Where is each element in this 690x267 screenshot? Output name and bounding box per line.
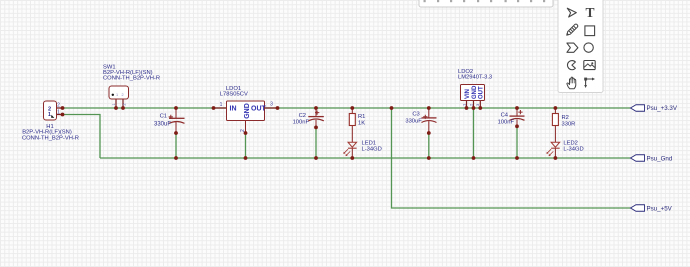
regulator LDO1 (214, 101, 278, 158)
icon: polygon flag tool (567, 43, 578, 52)
LED2 (546, 142, 559, 156)
icon: rectangle tool (585, 26, 595, 36)
wire: ground rail (100, 157, 631, 159)
icon: arc tool (567, 61, 575, 70)
wire: +5V branch down and right to port (392, 108, 631, 208)
svg-text:1: 1 (112, 103, 116, 105)
capacitor C3 (422, 108, 437, 133)
svg-text:C1: C1 (160, 113, 167, 119)
icon: hand tool (567, 77, 576, 89)
node Psu_+5V port (631, 205, 673, 213)
svg-text:100nF: 100nF (293, 120, 310, 126)
resistor R2 (552, 114, 558, 126)
svg-text:R2: R2 (562, 115, 569, 121)
LED1 (343, 142, 356, 156)
svg-text:1: 1 (48, 112, 51, 118)
junction dots at capacitor pin ends (174, 124, 519, 135)
label LED2 (563, 140, 583, 152)
capacitor C1 (169, 108, 185, 133)
wire: LDO2 GND pin down to ground rail (473, 108, 475, 158)
svg-text:R1: R1 (358, 114, 365, 120)
svg-text:CONN-TH_B2P-VH-R: CONN-TH_B2P-VH-R (103, 76, 160, 82)
label LED1 (362, 140, 382, 152)
svg-text:Psu_Gnd: Psu_Gnd (647, 156, 673, 163)
node Psu_Gnd port (631, 155, 673, 163)
wire: main +5V/top rail (63, 107, 631, 109)
svg-text:GND: GND (472, 85, 478, 99)
svg-text:L78S05CV: L78S05CV (220, 92, 248, 98)
svg-text:L-34GD: L-34GD (362, 146, 382, 152)
junction dots on ground rail (174, 156, 557, 160)
wire: H1 pin1 to ground rail (down at x=100) (63, 115, 101, 159)
capacitor C2 (308, 108, 324, 127)
resistor R1 (349, 114, 355, 126)
icon: circle tool (584, 43, 593, 52)
svg-text:OUT: OUT (251, 105, 267, 112)
switch SW1 (109, 86, 129, 108)
svg-text:2: 2 (57, 103, 60, 109)
svg-text:330R: 330R (562, 122, 576, 128)
wire: C3 lower branch (428, 133, 430, 158)
svg-text:1K: 1K (358, 120, 365, 126)
svg-text:LM2940T-3.3: LM2940T-3.3 (458, 75, 492, 81)
label H1 (22, 124, 79, 141)
svg-text:OUT: OUT (479, 86, 485, 99)
svg-text:330uF: 330uF (154, 122, 171, 128)
label SW1 (103, 64, 160, 81)
svg-text:330uF: 330uF (405, 119, 422, 125)
wire: R1/LED1 branch pins (351, 108, 353, 158)
wire: R2/LED2 branch pins (554, 108, 556, 158)
regulator LDO2 (461, 85, 485, 109)
svg-text:IN: IN (230, 105, 237, 112)
label LDO1 (220, 86, 248, 98)
svg-text:1: 1 (116, 93, 118, 97)
label C1 (154, 113, 171, 127)
svg-text:Psu_+5V: Psu_+5V (647, 206, 673, 213)
svg-text:C4: C4 (501, 112, 509, 118)
capacitor C4 (510, 108, 525, 126)
icon: image tool (584, 61, 595, 70)
svg-text:3: 3 (270, 102, 273, 108)
svg-text:T: T (585, 5, 594, 20)
wire: C1 lower branch (175, 133, 177, 158)
svg-text:Psu_+3.3V: Psu_+3.3V (647, 105, 678, 112)
svg-text:1: 1 (57, 110, 60, 116)
svg-text:CONN-TH_B2P-VH-R: CONN-TH_B2P-VH-R (22, 135, 79, 141)
svg-text:GND: GND (244, 103, 251, 119)
svg-text:C3: C3 (412, 111, 419, 117)
svg-text:2: 2 (122, 93, 124, 97)
svg-text:L-34GD: L-34GD (563, 146, 583, 152)
junction dots on top rail (61, 106, 558, 116)
icon: pencil (567, 24, 578, 35)
connector H1 (44, 101, 63, 120)
label LDO2 (458, 69, 492, 81)
label R1 (358, 114, 365, 127)
label C2 (293, 113, 310, 126)
node Psu_+3.3V port (631, 105, 678, 112)
wire: C2 lower branch (315, 127, 317, 158)
label C4 (498, 112, 515, 125)
icon: text tool (585, 5, 594, 20)
wire: C4 lower branch (516, 126, 518, 158)
svg-text:C2: C2 (299, 113, 306, 119)
svg-text:VIN: VIN (465, 89, 471, 99)
svg-text:1: 1 (220, 102, 223, 108)
icon: wire corner tool (584, 78, 595, 89)
icon: select arrow (567, 8, 576, 17)
right toolbar panel (558, 0, 603, 93)
svg-text:2: 2 (123, 103, 127, 105)
label C3 (405, 111, 422, 124)
svg-text:100nF: 100nF (498, 120, 515, 126)
top toolbar sliver (419, 0, 553, 7)
label R2 (562, 115, 576, 128)
